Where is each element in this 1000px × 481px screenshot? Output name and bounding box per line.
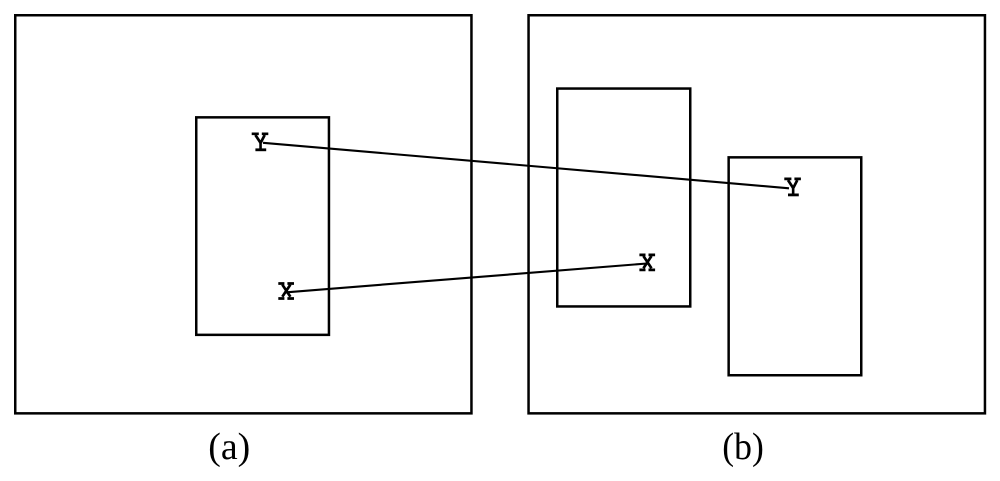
node Y in box (b) xyxy=(784,179,801,195)
outer box (b) xyxy=(529,15,985,413)
outer box (a) xyxy=(15,15,471,413)
svg-text:(a): (a) xyxy=(208,426,250,468)
node X in box (a) xyxy=(278,284,294,299)
svg-text:(b): (b) xyxy=(722,426,764,468)
inner box 1 in (b) xyxy=(557,89,690,307)
node X in box (b) xyxy=(639,255,655,270)
inner box in (a) xyxy=(196,117,329,335)
inner box 2 in (b) xyxy=(729,157,862,375)
node Y in box (a) xyxy=(252,134,269,150)
wire X(a) to X(b) xyxy=(285,264,647,293)
wire Y(a) to Y(b) xyxy=(263,143,789,189)
